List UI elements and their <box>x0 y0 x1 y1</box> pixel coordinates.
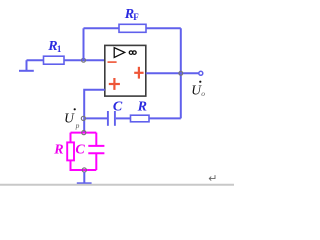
wire op-amp + input <box>84 90 105 133</box>
node Up <box>81 116 85 120</box>
op-amp infinity symbol <box>129 51 133 55</box>
op-amp U1 <box>105 45 146 96</box>
resistor R (parallel, magenta) <box>67 142 74 160</box>
label Up <box>74 108 76 110</box>
svg-text:C: C <box>113 99 123 114</box>
magenta R branch wire top <box>70 133 72 143</box>
wire ground to R1 <box>27 59 44 61</box>
wire RC branch right segment <box>149 117 181 119</box>
svg-text:o: o <box>201 89 205 98</box>
op-amp plus input mark <box>109 78 120 90</box>
wire feedback top left segment <box>84 27 120 29</box>
op-amp minus input mark <box>108 61 117 63</box>
wire R1 to op-amp inverting input <box>64 59 105 61</box>
magenta C branch wire bottom <box>95 153 97 170</box>
svg-text:↵: ↵ <box>208 173 217 185</box>
svg-text:F: F <box>133 12 139 22</box>
svg-text:R: R <box>137 99 147 114</box>
op-amp output plus mark <box>134 67 143 79</box>
ground (bottom) <box>77 172 92 183</box>
wire node Up to C <box>85 117 107 119</box>
resistor R (series) <box>131 115 150 122</box>
wire output <box>146 72 199 74</box>
magenta RC top rail <box>71 132 97 134</box>
node A (junction R1 / feedback) <box>82 58 86 62</box>
svg-text:C: C <box>75 142 85 157</box>
op-amp gain triangle <box>114 48 125 58</box>
svg-text:p: p <box>75 121 80 130</box>
wire between C and R <box>116 117 131 119</box>
svg-text:R: R <box>53 142 63 157</box>
magenta C branch wire top <box>95 133 97 145</box>
svg-text:U: U <box>64 111 75 126</box>
node output junction <box>179 71 183 75</box>
node junction Up / magenta <box>82 131 86 135</box>
resistor RF <box>119 24 146 32</box>
bottom rule <box>0 184 234 186</box>
magenta R branch wire bottom <box>71 160 97 170</box>
label Uo <box>199 81 201 83</box>
node junction ground / magenta <box>82 168 86 172</box>
capacitor C (parallel, magenta) <box>88 146 104 153</box>
wire feedback top right segment <box>146 27 181 29</box>
wire right vertical (feedback down to output and RC branch) <box>180 28 182 118</box>
svg-text:1: 1 <box>57 44 62 54</box>
capacitor C (series) <box>108 111 115 126</box>
wire feedback vertical left <box>83 28 85 60</box>
resistor R1 <box>44 56 65 64</box>
output terminal <box>199 71 203 75</box>
ground (left input) <box>19 60 34 71</box>
